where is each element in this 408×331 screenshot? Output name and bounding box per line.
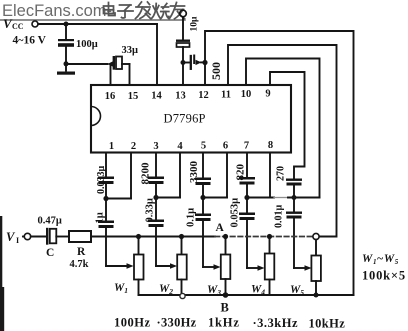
wire W2 wiper — [156, 265, 172, 267]
node W2 top — [179, 234, 184, 239]
capacitor 100u — [65, 24, 67, 39]
svg-text:4: 4 — [177, 141, 183, 152]
svg-text:0.33μ: 0.33μ — [145, 198, 156, 222]
svg-text:14: 14 — [151, 91, 162, 102]
svg-text:4~16 V: 4~16 V — [13, 35, 47, 47]
IC U1 D7796P body — [91, 85, 291, 153]
svg-text:6: 6 — [223, 141, 228, 152]
svg-text:3: 3 — [153, 141, 158, 152]
watermark glyph you — [170, 3, 185, 19]
svg-text:R: R — [77, 246, 86, 258]
node W1 top — [136, 234, 141, 239]
svg-text:100Hz: 100Hz — [114, 316, 151, 330]
wire Vcc to pin14 — [38, 23, 157, 25]
svg-text:100k×5: 100k×5 — [362, 269, 406, 283]
node junction pin13 — [181, 60, 186, 65]
wire pin8 stub — [269, 153, 271, 198]
node junction pin5-6 — [200, 195, 205, 200]
svg-text:W1~W5: W1~W5 — [362, 253, 399, 266]
node W5 bottom junction — [314, 293, 319, 298]
svg-text:11: 11 — [221, 90, 231, 101]
ground — [65, 64, 67, 71]
svg-text:1: 1 — [109, 141, 114, 152]
svg-text:100μ: 100μ — [76, 39, 98, 50]
wire bus dashed segment to node B circle — [215, 236, 313, 238]
svg-text:15: 15 — [128, 91, 139, 102]
input terminal Vi — [24, 233, 30, 239]
svg-text:2: 2 — [131, 141, 136, 152]
wire pin15 stub — [129, 64, 131, 85]
potentiometer W2 — [181, 237, 183, 255]
wire pin6 link — [203, 197, 227, 199]
svg-text:D7796P: D7796P — [164, 112, 206, 126]
scan edge artifact left strip — [0, 216, 2, 331]
svg-text:0.033μ: 0.033μ — [96, 166, 107, 195]
svg-text:0.1μ: 0.1μ — [186, 208, 197, 227]
svg-text:0.47μ: 0.47μ — [38, 216, 62, 227]
svg-text:8: 8 — [268, 140, 273, 151]
wire pin16 stub — [110, 65, 112, 85]
capacitor 1u — [98, 221, 114, 224]
svg-text:A: A — [216, 222, 225, 234]
Vcc terminal — [32, 21, 38, 27]
svg-text:820: 820 — [235, 164, 247, 181]
node W2 bottom circle artifact — [180, 293, 185, 298]
svg-text:·3.3kHz: ·3.3kHz — [253, 316, 299, 330]
svg-text:1kHz: 1kHz — [208, 316, 240, 330]
svg-text:0.01μ: 0.01μ — [274, 205, 285, 229]
watermark glyph dian — [104, 3, 116, 16]
svg-text:0.053μ: 0.053μ — [230, 198, 241, 228]
potentiometer W1 — [138, 237, 140, 255]
capacitor 0.33u — [148, 220, 164, 223]
capacitor 0.01u — [286, 212, 302, 214]
wire 100u node to 33u — [66, 63, 108, 65]
capacitor 820 — [239, 177, 255, 180]
wire pin4 link — [156, 197, 180, 199]
wire W3 wiper — [203, 266, 215, 268]
svg-text:10: 10 — [241, 89, 252, 100]
node junction pin7-8 — [244, 195, 249, 200]
node circle at bus right end — [313, 233, 319, 239]
node junction on pin12 line — [202, 60, 207, 65]
node junction pin3-4 — [153, 195, 158, 200]
node W4 top — [267, 234, 272, 239]
capacitor 0.033u — [98, 177, 114, 180]
capacitor 33u — [108, 61, 115, 67]
wire pins7-8-10 row — [247, 197, 274, 199]
wire pin5 column — [202, 153, 204, 178]
resistor R 4.7k — [69, 231, 91, 242]
svg-text:I: I — [16, 236, 19, 245]
wire pin9 loop — [270, 72, 305, 179]
wire pin7 column — [246, 153, 248, 178]
svg-text:500: 500 — [209, 62, 223, 80]
capacitor 0.1u — [195, 214, 211, 217]
svg-text:13: 13 — [175, 91, 186, 102]
wire pin12 loop to right side — [205, 31, 354, 295]
watermark glyph fa — [136, 2, 151, 19]
svg-text:1μ: 1μ — [95, 212, 106, 223]
svg-text:270: 270 — [276, 166, 287, 181]
svg-text:C: C — [46, 247, 54, 259]
svg-text:10μ: 10μ — [190, 16, 200, 32]
wire pin11 loop — [228, 45, 337, 237]
svg-text:5: 5 — [201, 141, 206, 152]
wire pin14 stub — [156, 24, 158, 85]
node junction right column — [292, 195, 297, 200]
watermark glyph shao — [152, 4, 169, 19]
svg-text:8200: 8200 — [140, 162, 152, 185]
terminal above pin13 — [180, 10, 187, 17]
IC pin number labels top — [105, 89, 271, 103]
capacitor pin13 to pin12 line — [183, 62, 189, 64]
wire pin2 link — [106, 198, 131, 200]
svg-text:7: 7 — [244, 141, 249, 152]
node junction at 100u top — [64, 22, 69, 27]
capacitor 270 — [286, 179, 302, 181]
wire pin10 loop — [246, 59, 320, 198]
svg-text:12: 12 — [198, 90, 209, 101]
capacitor 0.053u — [239, 213, 255, 216]
svg-text:·330Hz: ·330Hz — [157, 316, 197, 330]
capacitor 3300 — [195, 178, 211, 181]
svg-text:4.7k: 4.7k — [70, 259, 89, 270]
wire W1 wiper — [106, 265, 128, 267]
capacitor C 0.47u — [46, 229, 48, 244]
svg-text:3300: 3300 — [188, 161, 200, 184]
capacitor 8200 — [148, 177, 164, 180]
wire bottom bus — [139, 294, 354, 296]
svg-text:16: 16 — [105, 91, 116, 102]
potentiometer W5 — [315, 240, 317, 256]
node junction below 100u — [64, 61, 69, 66]
potentiometer W3 — [225, 237, 227, 255]
watermark glyph zi — [118, 5, 133, 18]
wire W5 wiper — [294, 267, 306, 269]
node junction pin1-2 — [103, 196, 108, 201]
svg-text:B: B — [221, 301, 229, 315]
watermark underline — [0, 19, 185, 21]
svg-text:10kHz: 10kHz — [309, 317, 346, 331]
wire pin1 column — [105, 153, 107, 177]
wire W4 wiper — [247, 267, 259, 269]
wire R to bus — [91, 236, 215, 238]
node B junction — [223, 292, 229, 298]
svg-text:9: 9 — [265, 89, 270, 100]
wire pin3 column — [155, 153, 157, 177]
svg-text:ElecFans.com-: ElecFans.com- — [2, 2, 112, 20]
svg-text:CC: CC — [12, 22, 24, 31]
IC pin number labels bottom — [109, 140, 273, 152]
node A W3 top — [223, 234, 228, 239]
potentiometer W4 — [269, 237, 271, 254]
svg-text:33μ: 33μ — [122, 45, 139, 56]
wire Vi to C — [31, 236, 46, 238]
capacitor 10u — [182, 17, 184, 40]
